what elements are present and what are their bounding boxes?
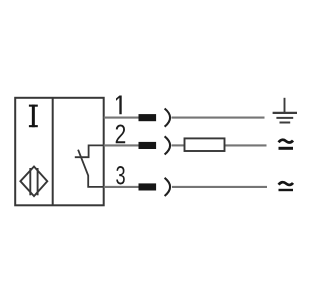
diamond inner bar right — [37, 168, 39, 195]
connector pin wire 2 — [139, 142, 157, 149]
ground stem — [284, 98, 286, 112]
connector pin wire 3 — [139, 183, 157, 190]
connector pin wire 1 — [139, 114, 157, 121]
ground bar 3 — [280, 122, 291, 124]
marking I (current interface) — [29, 105, 38, 128]
AC/DC symbol at wire 2: tilde — [279, 140, 293, 143]
inductive proximity sensor symbol (diamond) — [20, 167, 47, 197]
wire 2 segment after connector — [172, 144, 185, 146]
wire 1 segment from sensor — [104, 117, 139, 119]
ground bar 2 — [276, 117, 293, 119]
wire 1 segment after connector — [172, 117, 265, 119]
wire 3 segment after connector — [172, 186, 267, 188]
wire 2 segment after resistor — [225, 144, 267, 146]
diamond inner bar left — [29, 168, 31, 195]
terminal label 2 — [116, 124, 125, 143]
wire 3 segment from sensor — [104, 186, 139, 188]
switch S1 fixed contact — [75, 145, 104, 157]
terminal label 1 — [116, 95, 122, 114]
resistor R (load) — [185, 138, 225, 151]
internal divider — [52, 98, 54, 206]
terminal label 3 — [116, 166, 125, 185]
connector socket arc wire 3 — [165, 178, 171, 196]
AC/DC symbol at wire 3: tilde — [279, 182, 293, 185]
AC/DC symbol at wire 2: bar — [279, 147, 294, 150]
connector socket arc wire 2 — [165, 136, 171, 154]
connector socket arc wire 1 — [165, 109, 171, 127]
ground bar 1 — [273, 112, 297, 114]
AC/DC symbol at wire 3: bar — [279, 189, 294, 191]
wire 2 segment from sensor — [104, 144, 139, 146]
switch S1 lever — [78, 150, 104, 187]
sensor body outline — [15, 98, 104, 206]
